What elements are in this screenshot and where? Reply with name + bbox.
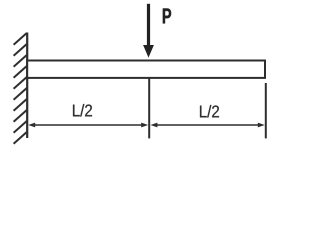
beam — [27, 61, 265, 78]
mid tick — [148, 79, 150, 139]
dimension line right segment — [154, 124, 261, 126]
arrowhead left-inner — [141, 123, 148, 128]
label L/2 left — [73, 104, 92, 117]
dimension line left segment — [32, 124, 144, 126]
arrowhead left-outer — [28, 123, 35, 128]
load arrow head — [143, 45, 154, 58]
label L/2 right — [200, 105, 219, 118]
arrowhead right-outer — [258, 123, 265, 128]
arrowhead right-inner — [150, 123, 157, 128]
wall hatching — [14, 33, 27, 144]
label P — [163, 9, 171, 24]
right extension line — [265, 83, 267, 138]
wall line — [26, 33, 28, 139]
load arrow shaft — [147, 4, 150, 47]
